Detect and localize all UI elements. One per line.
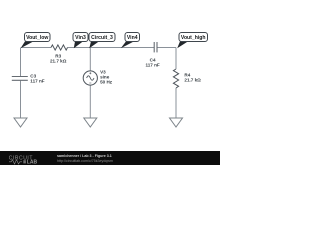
svg-text:Vin3: Vin3 xyxy=(75,35,86,41)
svg-text:Vout_low: Vout_low xyxy=(26,35,48,41)
svg-text:LAB: LAB xyxy=(27,160,38,165)
svg-text:117 nF: 117 nF xyxy=(145,63,159,68)
svg-text:50 Hz: 50 Hz xyxy=(100,80,113,85)
svg-text:21.7 kΩ: 21.7 kΩ xyxy=(50,58,67,63)
svg-text:samlchenner / Lab 3 - Figure 3: samlchenner / Lab 3 - Figure 3.1 xyxy=(57,154,112,158)
svg-text:http://circuitlab.com/c/75k3ey: http://circuitlab.com/c/75k3eydqwm xyxy=(57,159,113,163)
svg-text:Vin4: Vin4 xyxy=(127,35,138,41)
svg-text:117 nF: 117 nF xyxy=(30,78,44,83)
svg-text:Circuit_3: Circuit_3 xyxy=(91,35,113,41)
svg-text:21.7 kΩ: 21.7 kΩ xyxy=(184,77,201,82)
svg-text:Vout_high: Vout_high xyxy=(181,35,206,41)
